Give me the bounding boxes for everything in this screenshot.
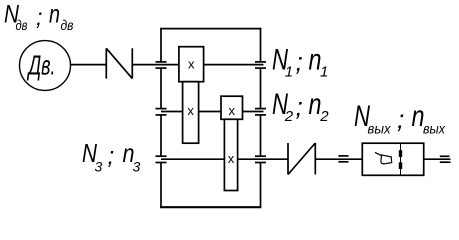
gear Z3 on shaft 2 — [221, 96, 243, 119]
svg-text:дв: дв — [16, 18, 28, 33]
machine box — [362, 143, 423, 175]
gear Z2 on shaft 2 — [183, 82, 199, 144]
housing right wall segment 4 — [260, 162, 262, 208]
wire: shaft 3 left wall to gear Z4 — [161, 158, 224, 160]
label N_dv ; n_dv — [4, 1, 74, 34]
coupling 2 right plate — [314, 143, 316, 175]
coupling 1 right plate — [131, 48, 133, 78]
wire: shaft 2 gear Z2 to gear Z3 — [199, 111, 221, 113]
machine box divider lower dash — [399, 162, 402, 169]
svg-text:3: 3 — [133, 159, 141, 175]
support tick upper before machine box — [338, 155, 348, 157]
wire: shaft 2 gear Z3 to right wall — [243, 111, 264, 113]
coupling 2 diagonal — [288, 143, 315, 175]
housing right wall segment 1 — [260, 28, 262, 62]
svg-text:;: ; — [108, 143, 115, 170]
wire: shaft 2 left wall to gear Z2 — [161, 111, 183, 113]
svg-text:;: ; — [36, 4, 42, 30]
bearing shaft1 left wall upper tick — [156, 61, 167, 63]
bearing shaft3 right wall upper tick — [255, 155, 266, 157]
machine icon blob — [381, 155, 392, 164]
label N1 ; n1 — [272, 44, 328, 81]
bearing shaft2 right wall upper tick — [255, 108, 266, 110]
bearing shaft3 left wall lower tick — [156, 162, 167, 164]
svg-text:;: ; — [397, 104, 404, 134]
svg-text:1: 1 — [320, 64, 328, 81]
housing left wall segment 2 — [160, 68, 162, 108]
svg-text:вых: вых — [423, 122, 446, 137]
wire: shaft 1 coupling to gear Z1 — [132, 64, 179, 66]
coupling 1 left plate — [105, 48, 107, 78]
machine icon tail line — [375, 152, 382, 155]
label Nvyh ; nvyh — [354, 100, 446, 137]
bearing shaft1 right wall lower tick — [255, 67, 266, 69]
gear Z4 on shaft 3 — [224, 119, 237, 190]
svg-text:2: 2 — [319, 108, 329, 125]
svg-text:x: x — [228, 151, 235, 166]
bearing shaft2 left wall lower tick — [156, 114, 167, 116]
svg-text:1: 1 — [285, 64, 293, 81]
wire: shaft 1 gear Z1 to right wall — [204, 64, 264, 66]
bearing shaft1 right wall upper tick — [255, 61, 266, 63]
label N2 ; n2 — [272, 88, 329, 125]
housing bottom edge — [160, 206, 261, 208]
end support lower tick — [440, 161, 451, 163]
gear Z1 on shaft 1 — [179, 47, 204, 82]
svg-text:x: x — [228, 103, 235, 118]
machine box divider upper dash — [399, 150, 402, 157]
housing top edge — [160, 28, 261, 30]
svg-text:дв: дв — [61, 18, 74, 33]
housing right wall segment 2 — [260, 68, 262, 108]
bearing shaft1 left wall lower tick — [156, 67, 167, 69]
svg-text:вых: вых — [368, 122, 392, 137]
motor circle — [20, 41, 71, 91]
coupling 1 diagonal — [106, 48, 132, 78]
svg-text:Дв.: Дв. — [27, 50, 56, 81]
label N3 ; n3 — [82, 138, 141, 175]
wire: shaft 1 motor to coupling 1 — [71, 64, 107, 66]
wire: shaft 3 coupling 2 to machine box — [315, 158, 362, 160]
svg-text:;: ; — [296, 47, 303, 77]
bearing shaft3 right wall lower tick — [255, 162, 266, 164]
svg-text:x: x — [188, 56, 195, 71]
bearing shaft2 left wall upper tick — [156, 108, 167, 110]
bearing shaft3 left wall upper tick — [156, 155, 167, 157]
housing right wall segment 3 — [260, 115, 262, 156]
end support upper tick — [440, 155, 450, 157]
wire: shaft 3 machine box to end support — [424, 158, 451, 160]
coupling 2 left plate — [287, 143, 289, 175]
housing left wall segment 3 — [160, 115, 162, 156]
svg-text:3: 3 — [95, 159, 103, 175]
svg-text:;: ; — [296, 91, 303, 121]
svg-text:n: n — [49, 1, 60, 29]
bearing shaft2 right wall lower tick — [255, 114, 266, 116]
support tick lower before machine box — [338, 161, 348, 163]
housing left wall segment 1 — [160, 28, 162, 62]
svg-text:2: 2 — [284, 108, 294, 125]
housing left wall segment 4 — [160, 162, 162, 208]
machine box divider line — [400, 143, 402, 175]
svg-text:x: x — [187, 103, 194, 118]
wire: shaft 3 gear Z4 to coupling 2 — [238, 158, 288, 160]
